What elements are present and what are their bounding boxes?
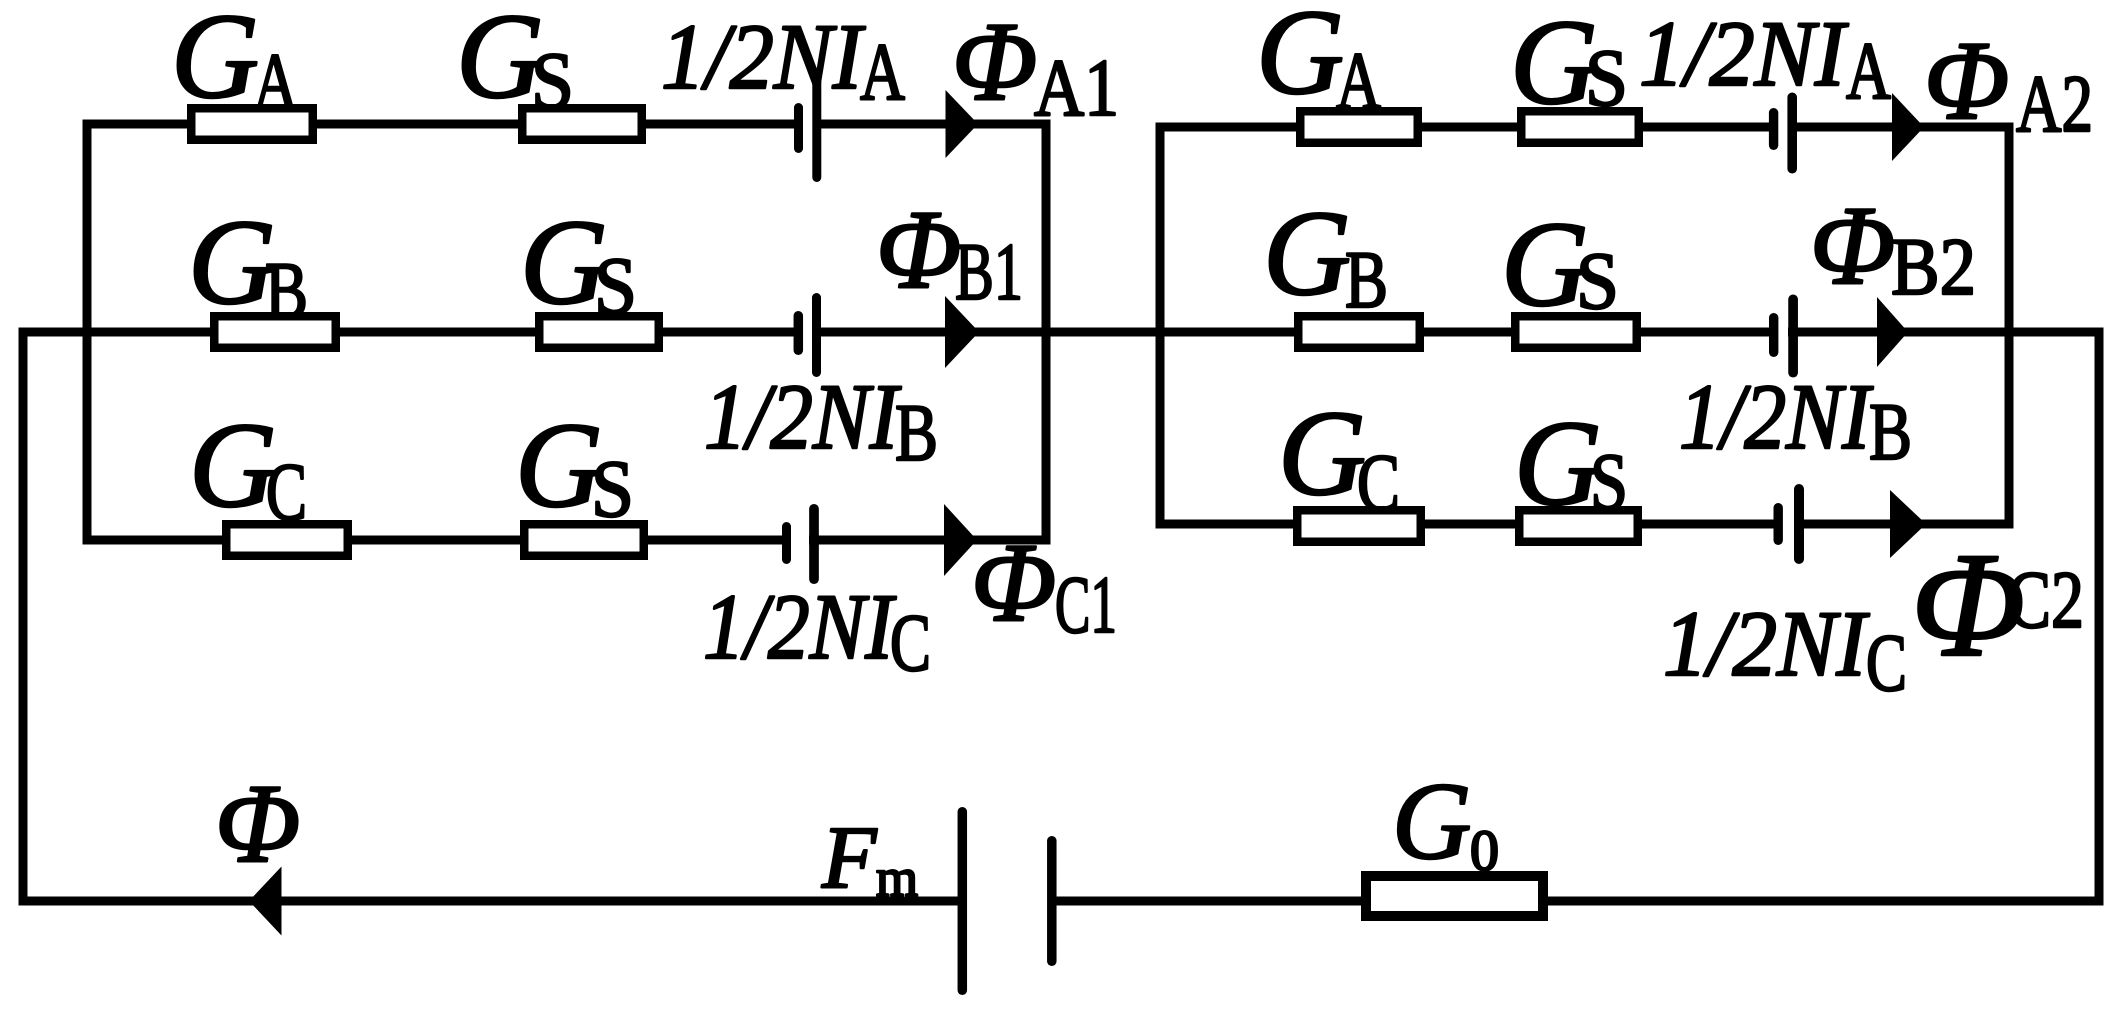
svg-text:G: G [188, 195, 276, 330]
svg-text:1/2NI: 1/2NI [1679, 366, 1874, 469]
svg-text:G: G [189, 398, 277, 533]
svg-text:Φ: Φ [971, 521, 1056, 645]
svg-text:C: C [1357, 437, 1400, 528]
svg-text:G: G [1392, 760, 1471, 882]
svg-text:B: B [895, 387, 938, 478]
svg-text:F: F [821, 809, 878, 907]
svg-text:G: G [1263, 186, 1351, 321]
svg-text:S: S [591, 443, 634, 534]
svg-text:B: B [1869, 386, 1912, 477]
svg-text:G: G [1256, 0, 1344, 120]
svg-text:A1: A1 [1034, 42, 1119, 133]
svg-text:A: A [860, 26, 905, 117]
svg-text:C: C [266, 446, 307, 537]
svg-text:C: C [890, 597, 931, 688]
svg-text:Φ: Φ [1924, 19, 2009, 143]
svg-text:C1: C1 [1055, 559, 1117, 650]
svg-text:S: S [1585, 32, 1628, 123]
svg-text:1/2NI: 1/2NI [1663, 593, 1870, 696]
svg-text:B: B [265, 245, 308, 336]
svg-text:S: S [531, 35, 574, 126]
svg-text:G: G [1278, 386, 1366, 521]
svg-text:A: A [1846, 25, 1891, 116]
svg-text:1/2NI: 1/2NI [704, 366, 902, 469]
svg-text:Φ: Φ [876, 188, 961, 312]
svg-text:Φ: Φ [952, 0, 1037, 124]
svg-text:A: A [253, 36, 298, 127]
svg-text:S: S [594, 240, 637, 331]
svg-text:Φ: Φ [1810, 184, 1895, 308]
svg-text:G: G [1514, 396, 1602, 531]
svg-text:Φ: Φ [215, 762, 300, 886]
svg-text:1/2NI: 1/2NI [703, 576, 897, 679]
svg-text:C2: C2 [2007, 554, 2084, 645]
svg-text:A: A [1336, 35, 1381, 126]
svg-text:0: 0 [1470, 818, 1499, 883]
svg-text:S: S [1576, 235, 1619, 326]
svg-text:S: S [1590, 436, 1628, 527]
svg-text:1/2NI: 1/2NI [661, 6, 866, 109]
svg-text:m: m [876, 848, 918, 908]
svg-text:B1: B1 [955, 226, 1023, 317]
svg-text:G: G [515, 398, 603, 533]
svg-text:G: G [171, 0, 259, 124]
svg-text:1/2NI: 1/2NI [1639, 3, 1849, 106]
svg-text:C: C [1866, 617, 1907, 708]
svg-text:A2: A2 [2016, 58, 2093, 149]
svg-text:B2: B2 [1891, 221, 1976, 312]
svg-text:B: B [1345, 234, 1388, 325]
